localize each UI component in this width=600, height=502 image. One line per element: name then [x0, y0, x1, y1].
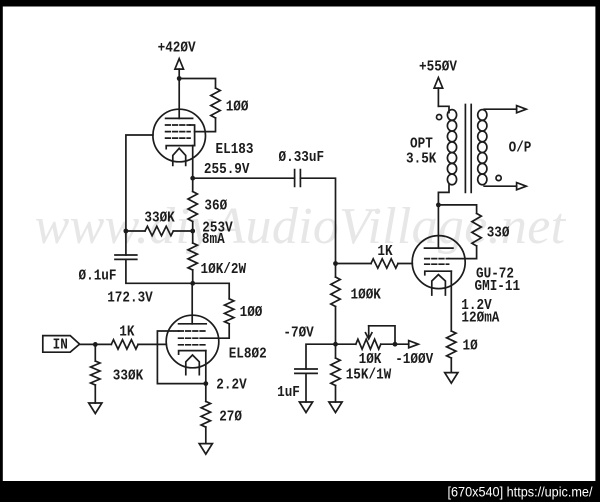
resistor 1K (grid stopper): [111, 340, 138, 349]
wire OPT secondary bottom: [484, 185, 516, 187]
label 10K/2W: [201, 261, 247, 278]
label 1K gu72: [377, 243, 392, 260]
label 255.9V: [204, 161, 250, 178]
svg-text:12ØmA: 12ØmA: [461, 309, 499, 326]
EL183 g3-cathode strap: [190, 125, 195, 146]
EL802 grid g3 row: [179, 330, 206, 332]
label EL802: [229, 346, 267, 363]
resistor 270: [201, 401, 210, 427]
wire IN to node: [80, 343, 112, 345]
label -100V: [395, 351, 433, 368]
output arrow top: [517, 106, 527, 113]
label 1.2V: [461, 297, 491, 314]
svg-text:1ØK/2W: 1ØK/2W: [201, 261, 247, 278]
wire node to R100K: [335, 264, 337, 278]
label 253V: [202, 219, 232, 236]
GU-72 grid g2 row: [425, 258, 449, 260]
wire OPT primary return: [438, 185, 449, 205]
wire 172.3V to EL802 plate: [191, 283, 193, 324]
svg-text:36Ø: 36Ø: [204, 198, 227, 215]
EL802 g3 strap box: [157, 331, 205, 384]
EL183 cathode bar: [166, 146, 194, 149]
label IN: [53, 337, 68, 354]
label 100 el802: [240, 304, 263, 321]
wire OPT secondary top: [484, 108, 516, 110]
EL183 grid g1 row: [166, 137, 190, 139]
svg-text:8mA: 8mA: [202, 231, 225, 248]
ground input: [89, 403, 102, 414]
wire 255.9V to C 0.33uF: [193, 177, 295, 179]
wire GU-72 plate lead: [437, 205, 439, 248]
label 10K: [359, 351, 382, 368]
wire R270 to ground: [205, 427, 207, 444]
junction pot node: [393, 342, 398, 347]
resistor 100 (EL183 screen): [211, 88, 220, 118]
EL183 grid g3 row: [166, 124, 190, 126]
wire R330K to 253V node: [173, 230, 192, 232]
resistor 100K: [331, 277, 340, 307]
transformer OPT core: [465, 105, 471, 193]
capacitor C1 0.33uF: [295, 170, 301, 187]
wire R100 to EL802 g2: [206, 324, 229, 338]
junction anode node: [436, 203, 441, 208]
node +550V label: [419, 58, 457, 75]
svg-text:33ØK: 33ØK: [144, 209, 174, 226]
svg-text:1K: 1K: [377, 243, 392, 260]
label -70V: [283, 324, 313, 341]
wire node to R330K input: [94, 344, 96, 361]
ground GU-72 cathode: [445, 373, 458, 384]
wire R10 to ground: [450, 358, 452, 373]
EL802 plate bar: [179, 323, 207, 325]
svg-text:1ØK: 1ØK: [359, 351, 382, 368]
label EL183: [216, 141, 254, 158]
svg-text:1K: 1K: [119, 323, 134, 340]
GU-72 plate bar: [425, 247, 453, 249]
junction 253V node: [190, 229, 195, 234]
svg-text:IN: IN: [53, 337, 68, 354]
svg-text:GMI-11: GMI-11: [475, 278, 521, 295]
junction 172.3V node: [190, 281, 195, 286]
label 100K: [351, 286, 381, 303]
wire GU-72 cathode lead: [450, 271, 452, 331]
transformer OPT secondary winding: [478, 110, 487, 185]
EL183 heater: [173, 148, 186, 165]
power +420V arrow: [175, 59, 184, 79]
label 100: [226, 99, 249, 116]
wire EL183 plate lead: [178, 79, 180, 119]
ground 15K: [329, 402, 342, 413]
label 0.1uF: [79, 268, 117, 285]
wire C2 to 172.3V node: [126, 259, 193, 283]
svg-text:33Ø: 33Ø: [487, 224, 510, 241]
junction coupling node: [333, 261, 338, 266]
label OPT: [410, 136, 433, 153]
wire anode to R330: [438, 205, 476, 214]
wire node to R330K: [126, 230, 145, 232]
label 330: [487, 224, 510, 241]
wire node to 1K: [336, 263, 372, 265]
wire R330K to ground: [94, 385, 96, 403]
border frame: [0, 0, 600, 7]
input IN tag: [43, 336, 80, 353]
power +550V arrow: [434, 78, 443, 107]
svg-text:+55ØV: +55ØV: [419, 58, 457, 75]
wire pot to -100V: [381, 343, 409, 345]
wire 1K to GU-72 g1: [398, 263, 412, 265]
svg-text:1ØØK: 1ØØK: [351, 286, 381, 303]
EL183 cathode lead: [192, 146, 194, 179]
junction 2.2V node: [203, 381, 208, 386]
tube U2 EL802 envelope: [166, 315, 219, 368]
label 2.2V: [216, 377, 246, 394]
label 270: [219, 408, 242, 425]
EL183 grid g2 row: [166, 131, 190, 133]
svg-text:+42ØV: +42ØV: [158, 39, 196, 56]
svg-text:1ØØ: 1ØØ: [240, 304, 263, 321]
label 0.33uF: [279, 149, 325, 166]
label O/P: [509, 140, 532, 157]
wire C1 to 1K node: [300, 178, 335, 263]
svg-text:Ø.33uF: Ø.33uF: [279, 149, 325, 166]
svg-text:3.5K: 3.5K: [406, 151, 436, 168]
svg-text:27Ø: 27Ø: [219, 408, 242, 425]
GU-72 grid g1 row: [425, 263, 449, 265]
node 255.9V: [190, 176, 195, 181]
junction input node: [93, 342, 98, 347]
power -100V arrow: [409, 341, 419, 348]
EL183 plate bar: [166, 117, 193, 119]
GU-72 cathode bar: [425, 271, 452, 275]
wire node to C 1uF: [306, 344, 336, 369]
svg-text:Ø.1uF: Ø.1uF: [79, 268, 117, 285]
label 330K: [144, 209, 174, 226]
ground cathode EL802: [199, 444, 212, 455]
tube U3 GU-72 envelope: [412, 236, 465, 289]
resistor 330K (grid leak): [91, 361, 100, 385]
pot wiper arrow: [366, 326, 372, 339]
label 1uF: [277, 384, 300, 401]
junction -70V node: [333, 342, 338, 347]
svg-text:33ØK: 33ØK: [113, 368, 143, 385]
potentiometer 10K: [356, 339, 381, 349]
svg-text:-7ØV: -7ØV: [283, 324, 313, 341]
wire R360 to node 253V: [192, 222, 194, 244]
label 8mA: [202, 231, 225, 248]
label 330K input: [113, 368, 143, 385]
svg-text:2.2V: 2.2V: [216, 377, 246, 394]
wire node to R270: [205, 384, 207, 402]
OPT phase dot secondary: [496, 175, 501, 180]
ground 1uF: [299, 402, 312, 413]
label 360: [204, 198, 227, 215]
wire +420V to R 100: [179, 79, 215, 89]
svg-text:1Ø: 1Ø: [463, 337, 478, 354]
wire node to pot: [336, 343, 356, 345]
EL802 grid g2 row: [179, 337, 206, 339]
tube U1 EL183 envelope: [153, 109, 206, 162]
svg-text:15K/1W: 15K/1W: [346, 367, 392, 384]
junction +420V node: [177, 76, 182, 81]
EL802 cathode lead: [205, 351, 207, 384]
wire 1K to EL802 g1: [138, 343, 166, 345]
transformer OPT primary winding: [447, 110, 456, 185]
capacitor C2 0.1uF: [115, 255, 137, 259]
wire +550V to OPT primary: [438, 106, 449, 112]
wire node to C 0.1uF: [125, 231, 127, 255]
GU-72 heater: [432, 275, 446, 295]
svg-text:EL183: EL183: [216, 141, 254, 158]
wire R100K to -70V node: [335, 307, 337, 345]
EL802 heater: [186, 355, 200, 375]
wire EL183 g1 to node: [126, 135, 153, 231]
label 1K input: [119, 323, 134, 340]
node +420V label: [158, 39, 196, 56]
output arrow bottom: [517, 183, 527, 190]
OPT phase dot primary: [437, 115, 442, 120]
label GU-72: [476, 265, 514, 282]
capacitor C3 1uF: [295, 369, 317, 373]
svg-text:[670x540] https://upic.me/: [670x540] https://upic.me/: [448, 484, 593, 500]
resistor 100 (EL802 screen): [225, 299, 234, 324]
label 120mA: [461, 309, 499, 326]
wire node to R15K: [335, 344, 337, 358]
svg-text:172.3V: 172.3V: [107, 289, 153, 306]
junction g1 node: [124, 229, 129, 234]
resistor 330K (feedback): [145, 226, 173, 235]
resistor 10K/2W: [188, 243, 197, 270]
label 172.3V: [107, 289, 153, 306]
pot wiper strap: [369, 326, 395, 344]
svg-text:1ØØ: 1ØØ: [226, 99, 249, 116]
resistor 330: [472, 213, 481, 246]
label 10: [463, 337, 478, 354]
wire R15K to ground: [335, 386, 337, 403]
svg-text:EL8Ø2: EL8Ø2: [229, 346, 267, 363]
svg-text:-1ØØV: -1ØØV: [395, 351, 433, 368]
EL802 grid g1 row: [179, 344, 206, 346]
resistor 15K/1W: [331, 358, 340, 386]
label 3.5K: [406, 151, 436, 168]
svg-text:255.9V: 255.9V: [204, 161, 250, 178]
svg-text:1uF: 1uF: [277, 384, 300, 401]
label 15K/1W: [346, 367, 392, 384]
label GMI-11: [475, 278, 521, 295]
resistor 360: [188, 192, 197, 222]
wire R10K to 172.3V node: [192, 270, 194, 283]
wire C3 to ground: [305, 373, 307, 402]
wire R100 to EL183 g2: [195, 118, 216, 132]
EL802 cathode bar: [179, 351, 206, 355]
svg-text:O/P: O/P: [509, 140, 532, 157]
wire 172.3V to R100: [193, 283, 230, 299]
wire node to R360: [192, 178, 194, 191]
resistor 10: [447, 331, 456, 358]
resistor 1K (GU-72 grid): [371, 259, 398, 268]
wire R330 to GU-72 g2: [449, 246, 477, 259]
